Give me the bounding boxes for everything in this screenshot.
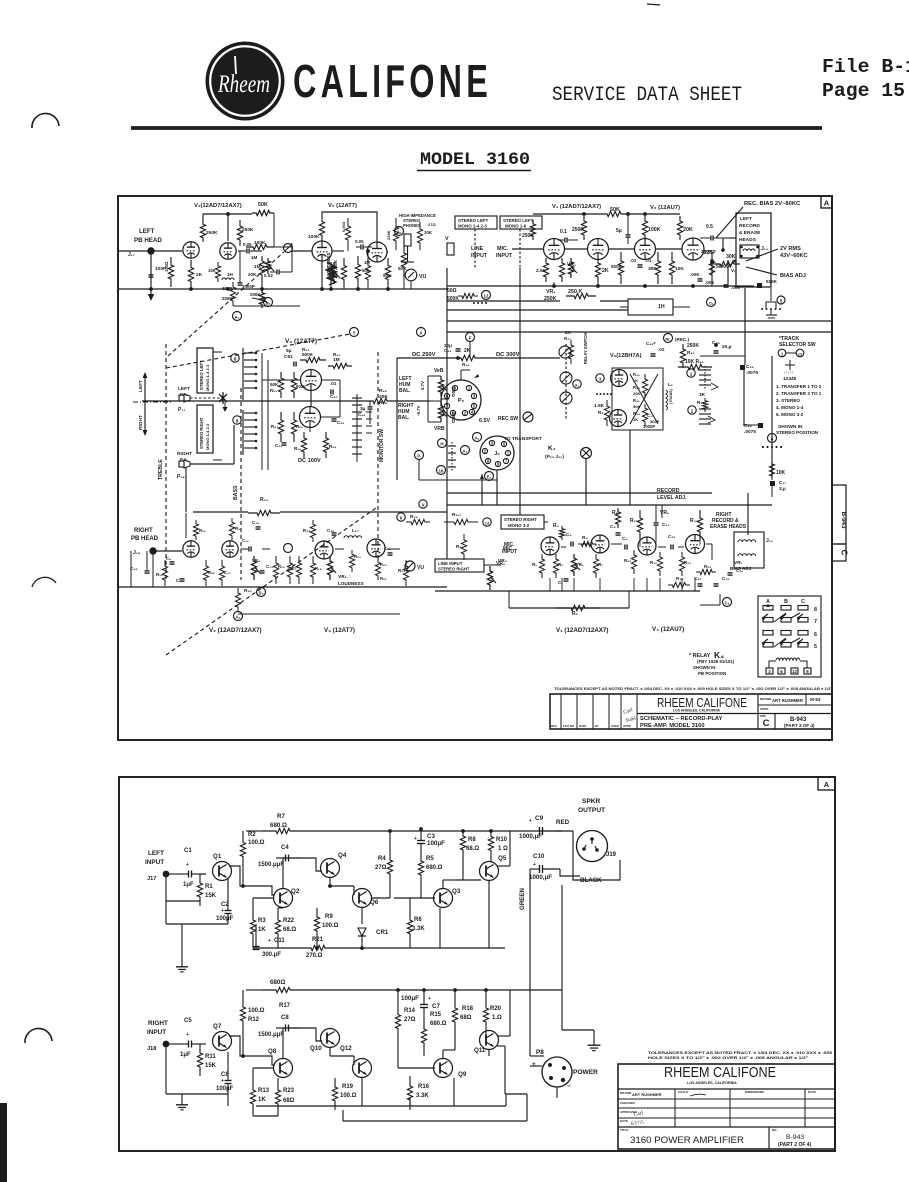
svg-text:30K: 30K [726, 254, 736, 260]
wires Q2 emitter [282, 907, 284, 909]
svg-text:APPD: APPD [623, 724, 631, 728]
svg-text:MONITOR SW: MONITOR SW [379, 429, 385, 462]
svg-text:REC. BIAS 2V~80KC: REC. BIAS 2V~80KC [744, 201, 801, 207]
contact column mid [448, 445, 456, 447]
svg-text:TOLERANCES EXCEPT AS NOTED FRA: TOLERANCES EXCEPT AS NOTED FRACT. ± 1/64… [648, 1051, 832, 1055]
svg-text:C₆₀: C₆₀ [330, 394, 337, 399]
circled 5 node [777, 296, 785, 304]
resistor 220K [393, 218, 398, 250]
svg-text:L₂: L₂ [668, 382, 673, 387]
svg-text:J₁₆: J₁₆ [766, 538, 773, 544]
svg-text:680Ω: 680Ω [270, 979, 285, 986]
resistor 500K grid [618, 252, 623, 284]
svg-text:Q3: Q3 [452, 888, 461, 895]
ground bars right [766, 314, 777, 316]
svg-text:DRAWN: DRAWN [620, 1091, 631, 1095]
svg-text:TOLERANCES EXCEPT AS NOTED FRA: TOLERANCES EXCEPT AS NOTED FRACT. ± 1/64… [554, 687, 833, 691]
svg-text:F: F [469, 336, 472, 341]
svg-text:RHEEM CALIFONE: RHEEM CALIFONE [664, 1064, 776, 1081]
vertical mic feed [519, 268, 521, 515]
circled 9 node [233, 416, 241, 424]
svg-text:Pₗ: Pₗ [417, 454, 421, 459]
svg-text:REC SW: REC SW [498, 416, 518, 422]
ground symbol left input [181, 924, 183, 962]
svg-text:R₃₁: R₃₁ [684, 560, 691, 565]
svg-text:C₁₃: C₁₃ [266, 564, 273, 569]
resistor 250K plate V2b [237, 220, 242, 246]
svg-text:R₁₇: R₁₇ [290, 566, 297, 571]
svg-text:V₁ (12AD7/12AX7): V₁ (12AD7/12AX7) [556, 627, 608, 634]
svg-text:C₁₇: C₁₇ [779, 480, 786, 485]
svg-text:APPD.: APPD. [760, 707, 769, 711]
resistor R20 [349, 550, 354, 572]
vertical rail x743 [743, 370, 745, 425]
resistor 30K phones [417, 222, 422, 250]
circled X node [417, 328, 426, 337]
contact X cluster [219, 392, 227, 404]
svg-text:C₄: C₄ [566, 532, 572, 537]
resistor 20K V6b [677, 216, 682, 240]
wires output stage left [394, 897, 435, 899]
tube V3d [367, 539, 385, 557]
svg-text:C11: C11 [274, 938, 285, 944]
svg-text:5: 5 [814, 644, 817, 650]
dotted connector column right [761, 308, 763, 310]
resistor 50K pair [385, 258, 390, 287]
svg-text:BAL.: BAL. [399, 388, 411, 394]
svg-text:500K: 500K [302, 352, 314, 357]
svg-text:SHOWN IN: SHOWN IN [693, 665, 715, 670]
junction dots bus [552, 284, 556, 288]
svg-text:J₁₅: J₁₅ [761, 246, 769, 252]
title block outer box [550, 694, 832, 729]
svg-text:C₄₆ᵇ: C₄₆ᵇ [646, 341, 656, 346]
TREBLE dashed shaft [165, 344, 167, 580]
svg-text:16: 16 [439, 469, 444, 474]
svg-text:250K: 250K [242, 227, 254, 233]
svg-text:RED: RED [556, 819, 570, 826]
svg-text:V₃ (12AT7): V₃ (12AT7) [285, 338, 317, 345]
svg-text:R₁₉: R₁₉ [315, 566, 322, 571]
svg-text:50K: 50K [610, 207, 620, 213]
VU meter circle [405, 269, 417, 281]
svg-text:VU: VU [417, 565, 424, 571]
svg-text:Q5: Q5 [498, 855, 507, 862]
svg-text:V₅ (12AT7): V₅ (12AT7) [328, 203, 357, 209]
svg-text:MIC.: MIC. [504, 542, 515, 548]
svg-text:R₂₂: R₂₂ [380, 562, 387, 567]
stereo left mono box 2 [500, 216, 542, 229]
svg-text:500K: 500K [447, 296, 459, 302]
capacitor C62 [332, 418, 337, 420]
svg-text:C: C [763, 718, 770, 729]
svg-text:500K: 500K [296, 384, 306, 389]
jack J18 power [163, 1041, 170, 1048]
svg-text:C4: C4 [281, 845, 289, 851]
logo Rheem circle [206, 42, 285, 121]
circled 2 contact [688, 406, 696, 414]
svg-text:PB POSITION: PB POSITION [698, 671, 726, 676]
svg-text:C₉₅: C₉₅ [746, 364, 754, 370]
svg-text:3160 POWER AMPLIFIER: 3160 POWER AMPLIFIER [630, 1135, 744, 1145]
zone A marker box [821, 196, 832, 208]
svg-text:2K: 2K [602, 268, 609, 274]
svg-text:R6: R6 [414, 917, 422, 923]
wire R4 connections [389, 831, 391, 846]
wires output stage right [397, 1048, 399, 1068]
svg-text:R15: R15 [430, 1012, 442, 1018]
svg-text:9: 9 [236, 419, 239, 424]
svg-text:L₁₇: L₁₇ [352, 528, 359, 533]
svg-text:1.Ω: 1.Ω [492, 1015, 502, 1021]
svg-text:LEVEL ADJ.: LEVEL ADJ. [657, 495, 687, 501]
title block right section [758, 704, 832, 706]
circled B2 node [264, 298, 273, 307]
svg-text:C₆₃: C₆₃ [275, 443, 282, 448]
vertical VR6 drop [661, 505, 663, 518]
node 1M resistor [259, 256, 264, 280]
svg-text:B-943: B-943 [840, 512, 847, 529]
svg-text:V₁ (12AD7/12AX7): V₁ (12AD7/12AX7) [552, 204, 601, 210]
svg-text:C9: C9 [535, 815, 544, 822]
svg-text:MODEL 3160: MODEL 3160 [420, 150, 530, 170]
svg-text:ECO NO.: ECO NO. [563, 724, 575, 728]
svg-text:250 K: 250 K [568, 289, 582, 295]
svg-text:2ₐ: 2ₐ [397, 230, 401, 235]
svg-text:100.Ω: 100.Ω [340, 1093, 357, 1099]
svg-text:R₃₆: R₃₆ [410, 514, 418, 520]
svg-text:STEREO LEFT: STEREO LEFT [199, 360, 204, 390]
svg-text:R₅₃: R₅₃ [294, 446, 301, 451]
svg-text:1K: 1K [258, 1097, 266, 1103]
resistor 30K 10K V6 [655, 252, 660, 284]
record row cathode drops [549, 578, 551, 591]
tube V1a [544, 239, 565, 260]
svg-text:CALIFONE: CALIFONE [293, 55, 492, 107]
svg-text:-5.7V: -5.7V [416, 405, 421, 416]
main signal bus y289 [118, 288, 447, 290]
bus lines middle right [447, 285, 754, 287]
svg-text:P8: P8 [536, 1049, 544, 1056]
svg-text:27Ω: 27Ω [375, 865, 387, 871]
vertical rail x772 [771, 356, 773, 478]
tube V2a [183, 242, 199, 258]
svg-text:R21: R21 [312, 937, 324, 943]
svg-text:100μF: 100μF [401, 995, 419, 1002]
upper record rail y493 [447, 492, 712, 494]
svg-text:ART RUSHMER: ART RUSHMER [772, 698, 803, 703]
circled F node [466, 333, 475, 342]
contact group 1 [699, 369, 711, 371]
svg-text:C₉₄: C₉₄ [744, 423, 753, 429]
resistor plate V5a 100K [319, 216, 324, 241]
circled Cu node [707, 298, 716, 307]
svg-text:1μF: 1μF [183, 882, 194, 888]
svg-text:1K: 1K [258, 927, 266, 933]
svg-text:1M: 1M [254, 264, 261, 270]
svg-text:1500.μμF: 1500.μμF [258, 1032, 284, 1038]
svg-text:File B-1: File B-1 [822, 56, 909, 78]
svg-text:R₂: R₂ [558, 562, 563, 567]
power amp title block outer box [618, 1064, 835, 1149]
svg-text:Q1: Q1 [213, 853, 222, 860]
svg-text:INPUT: INPUT [145, 859, 164, 866]
svg-text:D₂: D₂ [266, 301, 271, 306]
svg-text:C₁₁: C₁₁ [242, 538, 249, 543]
bottom long bus [256, 1105, 506, 1107]
svg-text:A₄: A₄ [235, 615, 240, 620]
svg-text:LEFT: LEFT [139, 228, 155, 235]
svg-text:Rheem: Rheem [217, 71, 270, 98]
line input jack [447, 243, 454, 255]
hum bal wires [427, 376, 429, 422]
svg-text:R8: R8 [468, 837, 476, 843]
svg-text:1.5K: 1.5K [594, 403, 605, 409]
svg-text:A: A [824, 199, 830, 208]
wires V5 row [292, 250, 312, 252]
svg-text:8: 8 [814, 607, 817, 613]
svg-text:1H: 1H [227, 272, 234, 277]
svg-text:15K: 15K [205, 1063, 217, 1069]
svg-text:MONO 1-6: MONO 1-6 [505, 224, 527, 229]
resistor R50 1M [328, 363, 352, 368]
resistor R18 [310, 520, 315, 542]
svg-text:+: + [268, 938, 271, 944]
svg-text:R₅₆: R₅₆ [296, 424, 303, 429]
svg-text:0.5: 0.5 [706, 224, 713, 230]
vertical 0.004 resistor [345, 218, 350, 248]
svg-text:Q12: Q12 [340, 1045, 352, 1052]
svg-text:VR₃: VR₃ [498, 558, 507, 564]
track selector arrows [789, 360, 791, 370]
resistor R56 [291, 412, 296, 442]
wires lower mid left [252, 946, 254, 948]
circled A4 node [461, 446, 470, 455]
svg-text:10K: 10K [208, 268, 216, 273]
resistor 250K V1a plate [530, 220, 535, 240]
svg-text:V₃ (12AT7): V₃ (12AT7) [324, 627, 355, 634]
line input stereo right box [435, 559, 484, 572]
svg-text:Q7: Q7 [213, 1023, 222, 1030]
wire C10 [530, 868, 540, 870]
tube V3b [300, 407, 321, 428]
svg-text:R₄₄: R₄₄ [633, 411, 640, 416]
top rail left channel [246, 830, 262, 832]
svg-text:12: 12 [792, 669, 797, 674]
svg-text:250K: 250K [687, 343, 699, 349]
tube V2c [183, 541, 199, 557]
svg-text:TITLE: TITLE [620, 1128, 628, 1132]
wire to power plug [561, 990, 563, 1030]
loudness pot VR scribble [328, 262, 333, 284]
svg-text:C₄: C₄ [610, 524, 616, 530]
long vertical x745 [744, 288, 746, 365]
svg-text:27Ω: 27Ω [428, 222, 436, 227]
resistor 50K top right [600, 211, 628, 216]
svg-text:Q4: Q4 [338, 852, 347, 859]
V3 wires [262, 379, 300, 381]
svg-text:−: − [567, 1083, 571, 1090]
tube V3a [301, 370, 322, 391]
wire Q8 collector to Q10 [283, 1028, 300, 1058]
resistor 250K plate V2a [200, 220, 205, 242]
VR4 pot [251, 556, 256, 580]
svg-text:50K: 50K [258, 202, 268, 208]
svg-text:R19: R19 [342, 1084, 354, 1090]
jack J17 [148, 248, 154, 254]
rec switch [523, 412, 533, 422]
svg-text:250P: 250P [701, 249, 713, 255]
junction dots row1 [189, 287, 193, 291]
svg-text:8: 8 [234, 357, 237, 362]
jack J18 [150, 548, 156, 554]
svg-text:R₁₈: R₁₈ [303, 528, 310, 533]
svg-text:0.05: 0.05 [243, 242, 252, 247]
svg-text:C: C [801, 599, 805, 605]
record wires [484, 564, 501, 566]
svg-text:P₁₈: P₁₈ [177, 474, 185, 480]
svg-text:R₁₁: R₁₁ [199, 528, 206, 533]
svg-text:SELECTOR SW: SELECTOR SW [779, 342, 816, 348]
circled A6 wafer node [573, 380, 581, 388]
svg-text:(TRANS): (TRANS) [669, 388, 673, 404]
svg-text:(PART 2 OF 4): (PART 2 OF 4) [778, 1142, 812, 1148]
svg-text:V₄ (12AU7): V₄ (12AU7) [652, 626, 684, 633]
relay table pins [766, 668, 773, 674]
svg-text:R13: R13 [258, 1088, 270, 1094]
svg-text:R₉₂:: R₉₂: [452, 512, 462, 518]
left head assembly box [736, 213, 771, 287]
svg-text:1K: 1K [633, 417, 638, 422]
svg-text:SCHEMATIC – RECORD-PLAY: SCHEMATIC – RECORD-PLAY [640, 716, 723, 722]
svg-text:STEREO POSITION: STEREO POSITION [776, 430, 819, 435]
svg-text:20K: 20K [633, 391, 640, 396]
svg-text:VR₁: VR₁ [576, 562, 584, 567]
svg-text:.005: .005 [690, 272, 699, 277]
svg-text:R₄₄: R₄₄ [687, 350, 695, 355]
rail to head box [726, 237, 736, 239]
svg-text:V₆ (12AU7): V₆ (12AU7) [650, 205, 680, 211]
resistor 500K V5 [355, 256, 360, 287]
wire green vertical [529, 869, 531, 990]
svg-text:R2: R2 [248, 832, 256, 838]
V4b resistors [642, 374, 647, 398]
svg-text:3.3K: 3.3K [412, 926, 425, 932]
svg-text:6: 6 [814, 632, 817, 638]
svg-text:4. MONO 1-4: 4. MONO 1-4 [776, 405, 804, 410]
svg-text:5: 5 [780, 299, 783, 304]
svg-text:DATE: DATE [579, 724, 587, 728]
long mid rail y401 [142, 400, 362, 402]
tone stack wires [274, 247, 292, 272]
connector J19 [577, 831, 608, 862]
svg-text:C₁₀: C₁₀ [662, 522, 670, 528]
svg-text:(REC.): (REC.) [675, 337, 690, 342]
resistor R4r [578, 541, 596, 546]
svg-text:VRB: VRB [434, 426, 445, 432]
circled wiper node [284, 244, 293, 253]
svg-text:CHKD: CHKD [611, 724, 619, 728]
svg-text:GREEN: GREEN [519, 887, 526, 910]
svg-text:LINE: LINE [471, 246, 484, 252]
circled A6 node [473, 433, 482, 442]
svg-text:68.Ω: 68.Ω [466, 846, 479, 852]
cathode resistors record row [539, 554, 544, 578]
svg-text:R₄₃: R₄₃ [633, 385, 640, 390]
svg-text:C₆₂: C₆₂ [337, 420, 344, 425]
svg-text:R₅₁: R₅₁ [302, 347, 309, 352]
svg-text:R₄₆: R₄₆ [462, 362, 470, 367]
circled 16 node [437, 466, 446, 475]
svg-text:RIGHT: RIGHT [148, 1020, 168, 1027]
tube V6a [635, 239, 656, 260]
svg-text:.01: .01 [630, 258, 637, 263]
svg-text:Vᵣ₇: Vᵣ₇ [731, 268, 737, 273]
resistor R7r [593, 554, 598, 578]
wire Q8 emitter [253, 1067, 274, 1069]
scan artifact top center [647, 4, 660, 5]
resistor 50K V6b [709, 252, 714, 284]
svg-text:NO.: NO. [772, 1128, 778, 1132]
svg-text:(FBY 1536 91/101): (FBY 1536 91/101) [697, 659, 735, 664]
binding arc bottom [25, 1028, 52, 1043]
svg-text:V: V [445, 236, 449, 242]
power amp schematic border [119, 777, 835, 1151]
svg-text:BLACK: BLACK [580, 877, 602, 884]
capacitor C63 [282, 442, 287, 444]
circled 8 node [231, 354, 239, 362]
svg-text:0.1: 0.1 [560, 229, 567, 235]
hum balance pot upper 100Ω [438, 376, 443, 396]
svg-text:100μF: 100μF [216, 1086, 234, 1092]
wire V1 plates [533, 213, 600, 215]
binding arc top [32, 113, 59, 128]
svg-text:30K: 30K [633, 404, 640, 409]
svg-text:STEREO LEFT: STEREO LEFT [458, 218, 489, 223]
ground below J17 arrow [150, 254, 152, 294]
stereo right mono 3-2 box [501, 515, 544, 529]
svg-text:VR₄: VR₄ [252, 558, 260, 563]
svg-text:15K: 15K [205, 893, 217, 899]
svg-text:CR1: CR1 [376, 929, 389, 936]
svg-text:R₁₅: R₁₅ [235, 526, 242, 531]
svg-text:HEADS: HEADS [739, 237, 757, 243]
zone A marker box 2 [818, 777, 835, 790]
resistor 250K V1b [581, 216, 586, 240]
VR1 pot [568, 258, 573, 278]
wire plate supply V2 [203, 214, 252, 220]
svg-text:5.7V: 5.7V [420, 381, 425, 390]
resistor R55 50K [278, 372, 283, 398]
svg-text:5. MONO 3-2: 5. MONO 3-2 [776, 412, 804, 417]
svg-text:SERVICE DATA SHEET: SERVICE DATA SHEET [552, 84, 742, 107]
vertical socket to record rail [496, 470, 498, 505]
svg-text:0.05: 0.05 [355, 239, 364, 244]
lower chain top rail [193, 511, 248, 513]
dotted column 4 [762, 446, 764, 448]
svg-text:R₅₇: R₅₇ [271, 424, 278, 429]
resistor 250K V5 [341, 258, 346, 287]
svg-text:C₅: C₅ [622, 536, 628, 542]
svg-text:4: 4 [771, 437, 774, 442]
svg-text:1M: 1M [333, 357, 340, 363]
svg-text:MONO 1-4 2-3: MONO 1-4 2-3 [205, 423, 210, 450]
secondary bus y306 [233, 305, 300, 307]
svg-text:3K: 3K [699, 392, 706, 398]
svg-text:250K: 250K [572, 227, 584, 233]
circled 6 R36 X Y [397, 513, 405, 521]
right record vertical [747, 493, 749, 535]
